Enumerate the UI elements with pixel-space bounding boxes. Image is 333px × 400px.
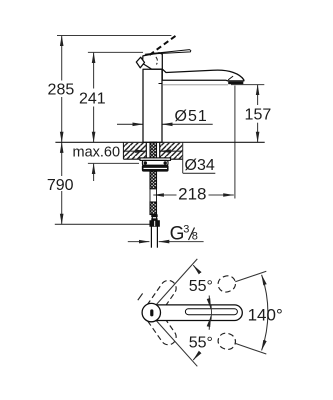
- svg-text:55°: 55°: [189, 278, 213, 295]
- svg-text:Ø34: Ø34: [185, 157, 215, 174]
- svg-text:157: 157: [245, 107, 272, 124]
- svg-text:3: 3: [183, 223, 189, 235]
- svg-text:140°: 140°: [248, 306, 283, 325]
- svg-text:790: 790: [47, 177, 74, 194]
- svg-text:218: 218: [178, 185, 206, 204]
- svg-text:G: G: [170, 223, 185, 244]
- svg-text:Ø51: Ø51: [175, 108, 208, 125]
- svg-text:241: 241: [79, 90, 106, 107]
- svg-text:285: 285: [48, 82, 75, 99]
- svg-text:55°: 55°: [189, 334, 213, 351]
- svg-text:max.60: max.60: [73, 144, 121, 160]
